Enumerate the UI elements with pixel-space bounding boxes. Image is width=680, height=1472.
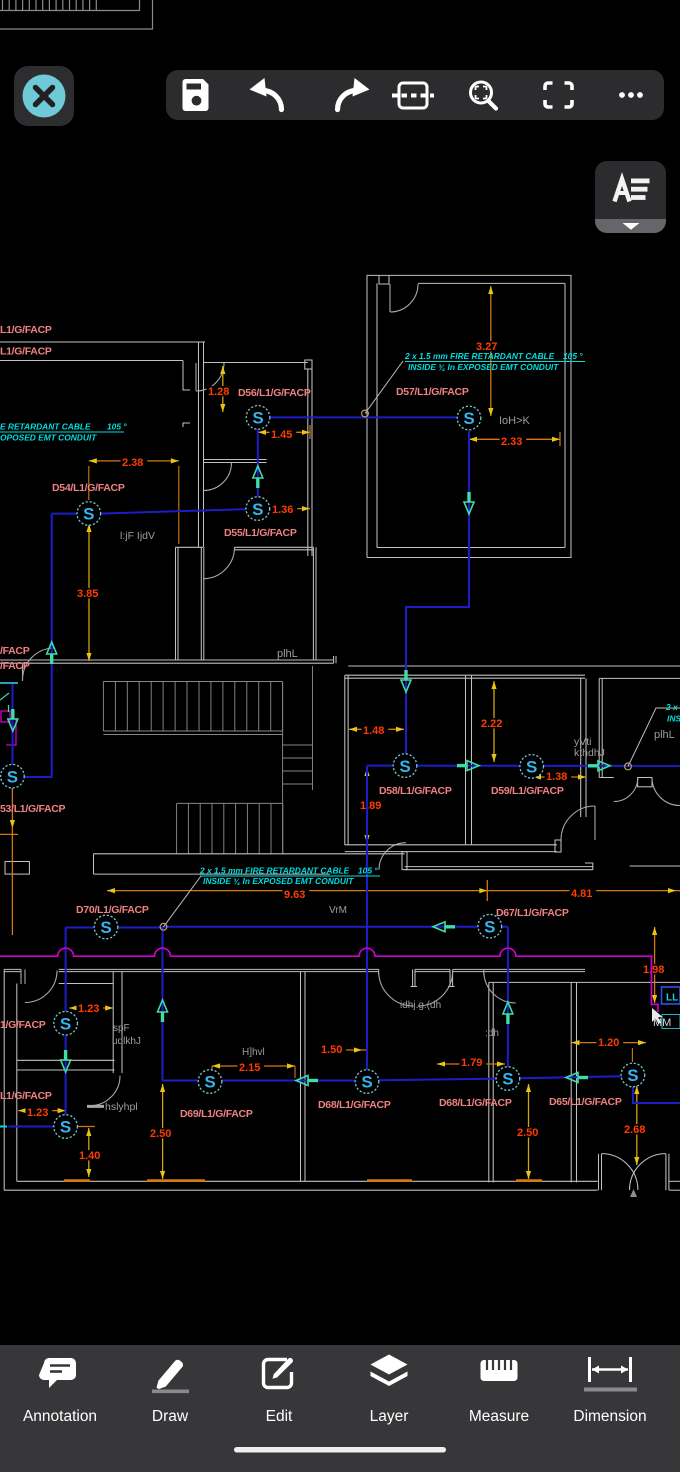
svg-text:Dimension: Dimension	[573, 1408, 646, 1425]
svg-text:2.33: 2.33	[501, 436, 522, 448]
smoke detector D68b	[496, 1067, 520, 1091]
svg-text:S: S	[60, 1118, 71, 1137]
wall: upper-left exterior	[0, 342, 205, 547]
cyan stub at left edge (corridor)	[0, 682, 18, 684]
wire: D69-D68-D65 run	[163, 1076, 634, 1081]
svg-text:S: S	[502, 1070, 513, 1089]
svg-text:hslyhpl: hslyhpl	[105, 1101, 138, 1113]
svg-text:1.45: 1.45	[271, 429, 292, 441]
wire: riser D58 run down to D68a	[366, 766, 368, 1082]
door: corridor (arc near D70 leader)	[379, 843, 406, 870]
svg-text:1.40: 1.40	[79, 1150, 100, 1162]
svg-text:D70/L1/G/FACP: D70/L1/G/FACP	[76, 904, 149, 916]
dimension 3.85	[88, 524, 90, 661]
svg-text:1.98: 1.98	[643, 964, 664, 976]
dimension 1.40	[88, 1128, 90, 1177]
svg-text:/FACP: /FACP	[0, 645, 30, 657]
svg-text:1.28: 1.28	[208, 386, 229, 398]
icon: Annotation	[39, 1358, 76, 1388]
svg-text:2.22: 2.22	[481, 718, 502, 730]
flow arrow down (above D53)	[11, 709, 14, 719]
svg-text:D56/L1/G/FACP: D56/L1/G/FACP	[238, 387, 311, 399]
dimension 9.63	[107, 890, 487, 892]
svg-text:1.89: 1.89	[360, 800, 381, 812]
icon: more (ellipsis)	[619, 92, 643, 98]
dimension 2.68	[636, 1086, 638, 1165]
smoke detector D68a	[355, 1070, 379, 1094]
box LL	[662, 987, 680, 1004]
flow arrow right (D58 run)	[457, 764, 467, 767]
svg-text:1.23: 1.23	[78, 1003, 99, 1015]
icon: Layer	[371, 1355, 408, 1387]
door: D58 room bottom (arc)	[561, 806, 595, 840]
svg-text:udlkhJ: udlkhJ	[112, 1036, 141, 1047]
door: double exit door bottom-right	[599, 1154, 669, 1191]
wire: D58-D59 horizontal run	[367, 765, 680, 767]
svg-text:105 °: 105 °	[563, 351, 583, 361]
svg-text:plhL: plhL	[277, 648, 298, 660]
icon: Draw	[152, 1360, 189, 1393]
smoke detector D55	[246, 497, 270, 521]
flow arrow down (D57 wire)	[467, 492, 470, 502]
leader to cable note (top)	[365, 361, 403, 414]
dimension 2.22	[493, 681, 495, 762]
wire: drop to D68	[507, 927, 509, 1078]
svg-text:2.38: 2.38	[122, 457, 143, 469]
dimension 2.15	[212, 1065, 295, 1067]
door: bottom rooms left entry (arc)	[25, 971, 57, 1003]
flow arrow up (D55 wire)	[256, 478, 259, 488]
UI: close button	[14, 66, 74, 126]
dimension 1.23 (lower)	[18, 1110, 65, 1112]
door: corridor top-left (arc)	[23, 648, 55, 680]
dimension baseline highlights on bottom wall	[64, 1179, 90, 1182]
note: fire retardant cable (corridor)	[199, 866, 380, 887]
svg-text:S: S	[526, 758, 537, 777]
svg-text:2.15: 2.15	[239, 1062, 260, 1074]
icon: section	[392, 83, 434, 108]
wall: D58/D59 rooms	[345, 675, 586, 852]
svg-text:INSIDE ¾ In EXPOSED EMT CONDU: INSIDE ¾ In EXPOSED EMT CONDUIT	[203, 876, 354, 886]
svg-text:9.63: 9.63	[284, 889, 305, 901]
svg-text:1/G/FACP: 1/G/FACP	[0, 1019, 46, 1031]
svg-text:2.50: 2.50	[150, 1128, 171, 1140]
svg-text:2 x 1.5 mm FIRE RETARDANT CABL: 2 x 1.5 mm FIRE RETARDANT CABLE	[404, 351, 555, 361]
flow arrow up (to D54)	[50, 654, 53, 664]
svg-text:1.79: 1.79	[461, 1057, 482, 1069]
svg-text:D54/L1/G/FACP: D54/L1/G/FACP	[52, 482, 125, 494]
wire: D56 down to D55	[257, 417, 259, 508]
svg-text:4.81: 4.81	[571, 888, 592, 900]
svg-text:D59/L1/G/FACP: D59/L1/G/FACP	[491, 785, 564, 797]
wall: corridor bottom band	[94, 852, 680, 875]
UI: bottom toolbar	[0, 1345, 680, 1472]
icon: Dimension	[584, 1357, 637, 1392]
icon: zoom	[471, 82, 497, 109]
dimension 2.38	[89, 460, 179, 462]
svg-text:D65/L1/G/FACP: D65/L1/G/FACP	[549, 1096, 622, 1108]
note: fire retardant cable (top)	[404, 351, 585, 372]
svg-text:Edit: Edit	[266, 1408, 293, 1425]
dimension 1.79	[437, 1063, 505, 1065]
icon: Measure	[481, 1360, 518, 1381]
svg-text:/FACP: /FACP	[0, 660, 30, 672]
icon: undo	[250, 78, 282, 110]
svg-text:L1/G/FACP: L1/G/FACP	[0, 1090, 52, 1102]
UI: top toolbar	[166, 70, 664, 120]
svg-text:D68/L1/G/FACP: D68/L1/G/FACP	[318, 1099, 391, 1111]
dimension 3.27	[490, 286, 492, 416]
dimension 1.50	[330, 1049, 366, 1051]
wall: yVti room (right)	[599, 678, 680, 786]
wall: corridor top	[0, 656, 680, 666]
door: D57 room (arc)	[390, 284, 418, 312]
flow arrow left (D67 run)	[445, 925, 455, 928]
svg-text:1.20: 1.20	[598, 1037, 619, 1049]
wire: drop at node to D69 run	[162, 928, 164, 1081]
shaft rectangle left of corridor	[5, 862, 29, 875]
svg-text:1.38: 1.38	[546, 771, 567, 783]
svg-text:S: S	[204, 1073, 215, 1092]
svg-text:S: S	[361, 1073, 372, 1092]
svg-text:D69/L1/G/FACP: D69/L1/G/FACP	[180, 1108, 253, 1120]
door: corridor double doors to idhj room	[379, 971, 414, 1006]
flow arrow up (node drop)	[161, 1012, 164, 1022]
wall: below D55 / plhL room	[176, 547, 317, 660]
icon: fullscreen	[545, 83, 572, 107]
wall: D57 room outer	[367, 275, 571, 557]
wire: lower-left stub	[8, 1126, 65, 1128]
box MM outline	[662, 1015, 680, 1029]
dimension 2.33	[469, 438, 560, 440]
door: plhL room (arc)	[203, 547, 234, 578]
svg-text:kthdhJ: kthdhJ	[574, 747, 605, 759]
svg-text:3.85: 3.85	[77, 588, 98, 600]
svg-text:VrM: VrM	[329, 905, 347, 916]
smoke detector D58	[393, 754, 417, 778]
svg-text:H]hvl: H]hvl	[242, 1047, 265, 1058]
dimension 1.36	[270, 508, 310, 510]
svg-text:105 °: 105 °	[107, 422, 127, 432]
icon: save	[183, 79, 209, 111]
dimension 1.89	[366, 768, 368, 843]
svg-text:1.23: 1.23	[27, 1107, 48, 1119]
UI: AE annotation-mode button	[595, 161, 666, 233]
svg-text:Measure: Measure	[469, 1408, 529, 1425]
svg-text:D55/L1/G/FACP: D55/L1/G/FACP	[224, 527, 297, 539]
leader to cable note (right)	[628, 708, 680, 766]
svg-text:S: S	[484, 917, 495, 936]
dimension 4.81	[487, 890, 680, 892]
wall: bottom rooms row	[4, 969, 680, 1190]
svg-text:1.48: 1.48	[363, 725, 384, 737]
wire: D56 to D57	[258, 416, 469, 418]
svg-text:Annotation: Annotation	[23, 1408, 97, 1425]
svg-text:2 x 1.5 mm FIRE RETARDANT CABL: 2 x 1.5 mm FIRE RETARDANT CABLE	[199, 866, 350, 876]
flow arrow left (D69 run)	[308, 1079, 318, 1082]
svg-text:D68/L1/G/FACP: D68/L1/G/FACP	[439, 1097, 512, 1109]
wire: D54 down-left to D53	[12, 514, 51, 777]
svg-text:INS: INS	[667, 714, 680, 724]
smoke detector DL1	[54, 1011, 78, 1035]
smoke detector D67	[478, 914, 502, 938]
flow arrow right (D59 run)	[588, 764, 598, 767]
svg-text:1.50: 1.50	[321, 1044, 342, 1056]
drawing fragment top-left (stair ticks)	[0, 0, 153, 29]
svg-text:S: S	[627, 1066, 638, 1085]
wire: D65 exit right	[633, 1075, 680, 1103]
svg-text:IoH>K: IoH>K	[499, 415, 531, 427]
UI: home indicator	[234, 1447, 446, 1453]
cursor mark	[652, 1008, 663, 1024]
svg-text::dh: :dh	[485, 1028, 499, 1039]
smoke detector D59	[520, 755, 544, 779]
smoke detector D65	[621, 1063, 645, 1087]
dimension line below D53	[11, 788, 13, 935]
icon: redo	[338, 78, 370, 110]
door: right of idhj room	[484, 971, 516, 1003]
svg-text:S: S	[83, 505, 94, 524]
svg-text:idhj.g.(dh: idhj.g.(dh	[400, 1000, 441, 1011]
leader to cable note (corridor)	[164, 876, 202, 927]
dimension 1.23 (upper)	[69, 1007, 113, 1009]
svg-text:INSIDE ¾ In EXPOSED EMT CONDU: INSIDE ¾ In EXPOSED EMT CONDUIT	[408, 362, 559, 372]
svg-text:spF: spF	[113, 1023, 130, 1034]
svg-text:S: S	[252, 500, 263, 519]
svg-text:E RETARDANT CABLE: E RETARDANT CABLE	[0, 422, 91, 432]
svg-text:S: S	[60, 1014, 71, 1033]
wire: D57 down to D58	[406, 431, 469, 765]
dimension 1.98	[654, 927, 656, 1003]
svg-text:S: S	[100, 918, 111, 937]
svg-text:2 x: 2 x	[665, 702, 678, 712]
magenta detail fixture bottom-left	[1, 711, 10, 722]
flow arrow down (to D58)	[404, 670, 407, 680]
svg-text:1.36: 1.36	[272, 504, 293, 516]
teal marks at fixture	[0, 693, 9, 700]
smoke detector DL2	[54, 1115, 78, 1139]
svg-text:105 °: 105 °	[358, 866, 378, 876]
svg-text:D57/L1/G/FACP: D57/L1/G/FACP	[396, 386, 469, 398]
magenta corridor line with hops	[0, 948, 658, 1012]
door: D55 room (arc)	[204, 463, 232, 491]
svg-text:L1/G/FACP: L1/G/FACP	[0, 346, 52, 358]
smoke detector D57	[457, 406, 481, 430]
svg-text:LL: LL	[666, 993, 678, 1004]
dimension 1.45	[258, 431, 310, 433]
flow arrow left (D65 run)	[578, 1076, 588, 1079]
svg-text:D67/L1/G/FACP: D67/L1/G/FACP	[496, 907, 569, 919]
svg-text:plhL: plhL	[654, 729, 675, 741]
wire: D70 drop to lower rooms	[65, 928, 67, 1127]
svg-text:53/L1/G/FACP: 53/L1/G/FACP	[0, 803, 66, 815]
dimension 2.50 (left)	[162, 1084, 164, 1179]
dimension 1.28	[222, 366, 224, 412]
svg-text:L1/G/FACP: L1/G/FACP	[0, 324, 52, 336]
svg-text:D58/L1/G/FACP: D58/L1/G/FACP	[379, 785, 452, 797]
dimension 1.38	[533, 776, 586, 778]
svg-text:Draw: Draw	[152, 1408, 189, 1425]
dimension 2.50 (right)	[528, 1084, 530, 1179]
note: cable (right edge, clipped)	[665, 702, 680, 724]
svg-text:Layer: Layer	[370, 1408, 409, 1425]
door: yVti room (two arcs)	[614, 778, 638, 802]
wire: D70 run	[66, 927, 163, 929]
dimension 1.48	[349, 728, 404, 730]
svg-text:S: S	[7, 767, 18, 786]
stairs: stairwell	[103, 666, 312, 854]
smoke detector D54	[77, 502, 101, 526]
svg-text:S: S	[399, 757, 410, 776]
svg-text:2.50: 2.50	[517, 1127, 538, 1139]
smoke detector D56	[246, 406, 270, 430]
smoke detector D69	[198, 1070, 222, 1094]
svg-text:S: S	[252, 409, 263, 428]
icon: Edit	[264, 1358, 293, 1388]
note: fire retardant cable (left, clipped)	[0, 422, 127, 443]
dimension 1.20	[572, 1042, 647, 1044]
svg-text:OPOSED EMT CONDUIT: OPOSED EMT CONDUIT	[0, 433, 97, 443]
svg-text:l:jF IjdV: l:jF IjdV	[120, 530, 155, 542]
svg-text:2.68: 2.68	[624, 1124, 645, 1136]
wall: D56/D55 rooms	[204, 360, 313, 556]
door: hslyhpl room (arc + leaf)	[90, 1076, 120, 1106]
flow arrow up (D68 drop)	[506, 1014, 509, 1024]
door: D56 room (arc)	[196, 363, 224, 391]
wire: D54 to D55	[52, 509, 258, 514]
wire: riser above D53	[12, 683, 14, 776]
smoke detector D70	[94, 915, 118, 939]
wire: D67 run	[163, 926, 508, 928]
flow arrow down (left rooms)	[64, 1050, 67, 1060]
svg-text:S: S	[463, 409, 474, 428]
smoke detector D53	[1, 764, 25, 788]
